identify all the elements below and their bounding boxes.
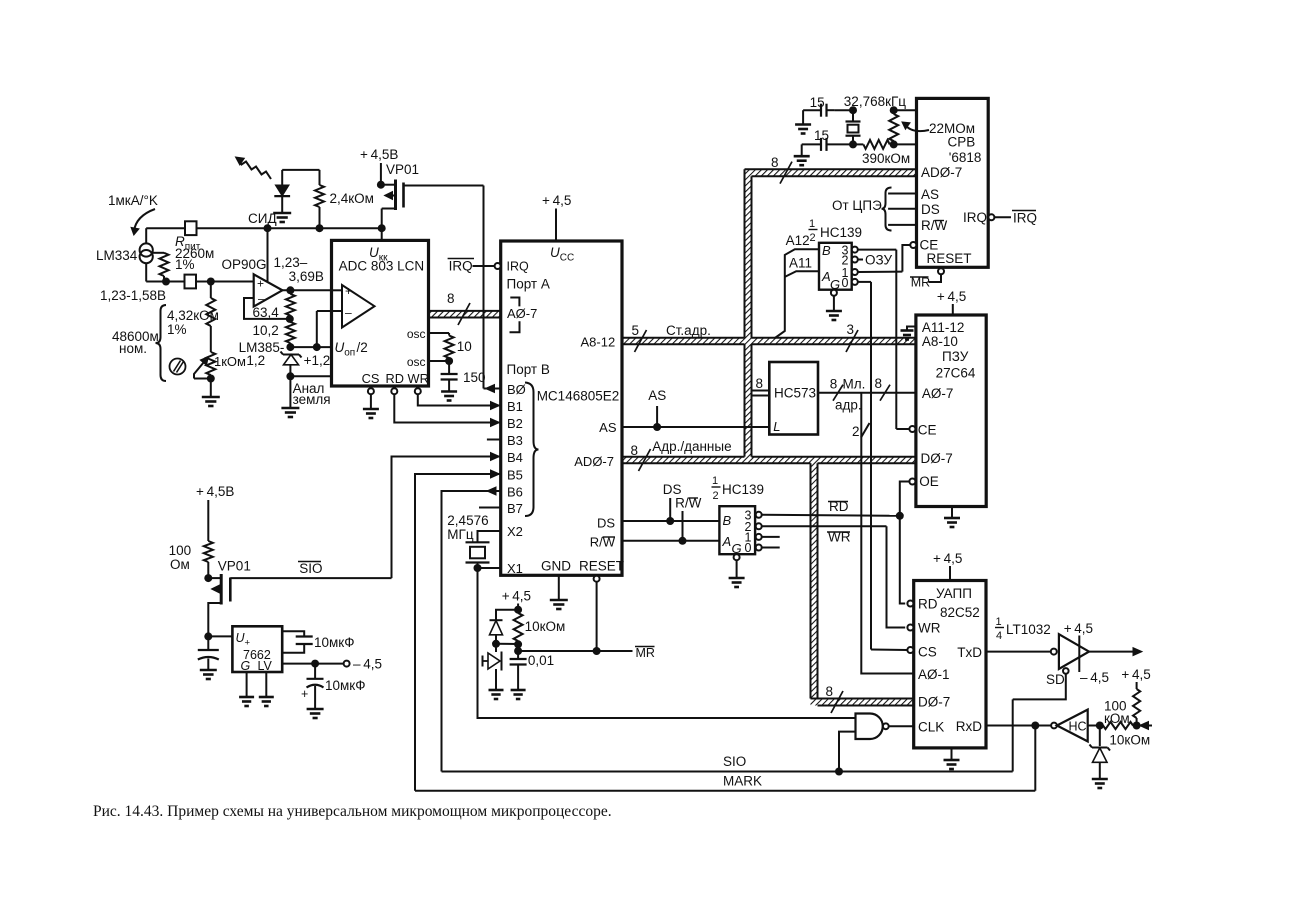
svg-text:+ 4,5В: + 4,5В [196,484,234,499]
svg-text:B2: B2 [507,416,523,431]
ground below HC139-1 G [826,311,842,320]
wire Мл.адр. A0-7 to ROM [818,376,916,413]
resistor 10кОм pullup [1109,667,1150,748]
IC СРВ 6818 [917,98,989,267]
pin B5 [415,468,523,791]
svg-text:+ 4,5: + 4,5 [1121,667,1150,682]
pin B4 [392,450,523,578]
svg-text:A8-10: A8-10 [922,334,958,349]
node VP01 drain / 7662 input [204,632,232,640]
resistor 22МОм (vertical) [889,106,916,148]
svg-text:кОм: кОм [1104,711,1130,726]
wire ADC WR to B1 [418,394,501,409]
IC HC139 (вторая половина) [712,475,765,556]
resistor 10,2 [253,319,295,351]
resistor 4,32кОм 1% [167,282,219,338]
svg-text:B7: B7 [507,501,523,516]
pin RD of ADC [386,371,404,394]
svg-text:B5: B5 [507,468,523,483]
label Uоп/2 pin [335,340,368,359]
label IRQ net (СРВ) [1012,211,1037,226]
svg-text:ADC 803 LCN: ADC 803 LCN [339,259,425,274]
node +4,5 reset pullup [502,589,531,614]
svg-text:–: – [345,306,352,320]
svg-text:B: B [723,513,732,528]
ground below pushbutton [489,690,504,699]
svg-text:390кОм: 390кОм [862,151,910,166]
svg-text:1%: 1% [167,322,187,337]
svg-text:10кОм: 10кОм [1109,733,1150,748]
svg-text:0,01: 0,01 [528,653,554,668]
svg-text:Рис. 14.43. Пример схемы на ун: Рис. 14.43. Пример схемы на универсально… [93,803,612,820]
pin AS of СРВ [888,187,939,202]
svg-text:CE: CE [918,423,937,438]
svg-text:МГц: МГц [447,527,474,542]
pin CE of ROM [896,426,915,432]
pin WR of ADC [408,371,429,394]
svg-text:WR: WR [408,371,429,386]
capacitor at 7662 input [198,636,219,670]
wire RxD line [986,722,1051,730]
IC HC139 (первая половина) [809,218,863,292]
current source LM334 [96,228,166,281]
pin WR of УАПП [907,625,913,631]
svg-text:8: 8 [756,376,764,391]
svg-text:1%: 1% [175,257,195,272]
pin osc 1 [407,327,449,341]
svg-text:X2: X2 [507,524,523,539]
svg-text:0: 0 [745,541,752,555]
wire HC573 input from bus (8) [752,376,770,396]
svg-text:RESET: RESET [927,251,972,266]
wire SIO gate line [230,561,391,578]
svg-text:1: 1 [809,218,815,230]
ground at ROM A11-12 [901,327,916,340]
svg-text:B4: B4 [507,450,523,465]
ground (bottom cap) [794,144,810,165]
potentiometer 1кОм [194,326,246,383]
comparator inside ADC [332,284,375,328]
bus hatching [429,169,917,705]
svg-text:+: + [301,687,308,701]
pin B3 [487,433,523,448]
svg-text:SIO: SIO [299,561,322,576]
svg-text:CS: CS [918,645,937,660]
svg-text:0: 0 [842,276,849,290]
pin group Порт B [507,362,550,516]
svg-text:15: 15 [810,95,825,110]
node main switched rail [146,224,386,232]
svg-text:AS: AS [599,420,617,435]
ground (top cap) [795,110,811,133]
pin X1 [474,561,523,576]
NAND gate (clock) [856,714,914,740]
IC MC146805E2 [501,241,622,575]
ground below MCU GND [550,600,568,609]
svg-text:–: – [258,292,265,306]
svg-text:SD: SD [1046,672,1065,687]
wire MR line [518,647,632,655]
svg-text:L: L [773,419,780,434]
svg-text:8: 8 [447,291,455,306]
svg-text:RD: RD [918,597,938,612]
wire AS line [622,388,769,431]
wire MARK line [415,726,1035,791]
svg-text:22МОм: 22МОм [929,121,975,136]
svg-text:3,69В: 3,69В [289,269,324,284]
resistor (box) in series to op-amp [185,275,254,289]
pin GND of MCU [541,559,571,601]
svg-text:B1: B1 [507,399,523,414]
resistor LM334 set (zigzag) [153,253,169,282]
svg-text:MARK: MARK [723,774,762,789]
resistor 10кОм (reset) [514,613,566,648]
node +4,5 УАПП [933,551,962,581]
svg-text:2: 2 [852,424,860,439]
svg-text:150: 150 [463,370,486,385]
svg-text:10мкФ: 10мкФ [325,678,365,693]
wire SIO line [442,699,1013,775]
ground below capacitor 150 [441,380,457,401]
pin group Порт A / A0-7 [507,277,550,333]
ground below input cap [200,670,217,679]
ground pins of 7662 [239,672,274,706]
svg-text:УАПП: УАПП [936,586,972,601]
pin A8-12 [581,335,616,350]
svg-text:IRQ: IRQ [449,259,473,274]
label 22МОм with arrow [900,119,975,136]
svg-text:Мл.: Мл. [843,377,866,392]
pin output 2 HC139-2 WR [756,523,887,544]
wire X1 clock to NAND gate [478,568,856,718]
ground below ADC CS [363,394,379,418]
bus vertical to СРВ (8) [771,155,792,184]
svg-text:8: 8 [826,684,834,699]
svg-text:63,4: 63,4 [253,305,280,320]
wire zener bottom to ADC analog ground pin [290,375,331,377]
resistor 390кОм [853,140,910,166]
pin DS of СРВ [888,202,940,217]
pin output 3 HC139-2 RD [756,499,904,520]
label -4,5 (driver) [1080,670,1109,685]
ground below 0,01 [511,690,526,699]
wire op-amp V+ from rail [267,228,269,282]
svg-text:2,4кОм: 2,4кОм [330,191,374,206]
svg-text:+: + [345,284,352,298]
svg-text:ADØ-7: ADØ-7 [574,454,614,469]
pin CS of ADC [362,371,380,394]
node op-amp output 1,23-3,69В [274,255,332,294]
wire R/W line [622,496,719,545]
svg-text:LM334: LM334 [96,248,138,263]
svg-text:MC146805E2: MC146805E2 [537,389,620,404]
wire RxD external input arrow [1137,722,1152,730]
svg-text:WR: WR [918,621,941,636]
svg-text:100: 100 [169,543,192,558]
LED СИД with light arrow [233,154,290,226]
ground below zener [1092,779,1108,788]
label 1/4 LT1032 [995,616,1051,642]
svg-text:8: 8 [830,377,838,392]
svg-text:osc: osc [407,355,426,369]
svg-text:LV: LV [258,659,273,673]
svg-text:B: B [822,243,831,258]
pin X2 [478,524,523,542]
zener LM385-1,2 [239,340,331,380]
zener clamp (RxD) [1090,726,1111,780]
svg-text:10,2: 10,2 [253,323,279,338]
label 1мкА/°K with curved arrow [108,193,158,236]
svg-text:B6: B6 [507,485,523,500]
transistor VP01 #2 [204,559,251,637]
svg-text:Порт A: Порт A [507,277,550,292]
svg-text:IRQ: IRQ [963,210,987,225]
pin output 1 HC139-2 [756,534,780,540]
node inverter input [1088,722,1104,730]
pin G HC139-2 [734,554,740,578]
svg-text:СРВ: СРВ [948,135,976,150]
svg-text:Ст.адр.: Ст.адр. [666,323,711,338]
svg-text:5: 5 [632,323,640,338]
svg-text:AS: AS [648,388,666,403]
transistor VP01 (P-MOSFET power switch) [377,162,419,228]
svg-text:земля: земля [293,392,331,407]
svg-text:1: 1 [996,616,1002,628]
resistor 63,4 [253,290,295,323]
svg-text:IRQ: IRQ [1013,211,1037,226]
buffer LT1032 [986,621,1093,672]
pin output 2 HC139-1 ОЗУ [852,253,893,268]
svg-text:+ 4,5: + 4,5 [937,289,966,304]
pin output 0 HC139-2 [756,545,780,551]
svg-text:RxD: RxD [956,719,982,734]
svg-text:IRQ: IRQ [507,259,530,273]
label От ЦПЭ with brace [832,188,892,231]
ground below ROM [944,507,960,528]
ground below potentiometer [202,379,220,407]
svg-text:+ 4,5: + 4,5 [542,193,571,208]
label IRQ to MCU [448,259,494,274]
svg-text:3: 3 [847,322,855,337]
ground below HC139-2 G [729,578,745,587]
svg-text:B3: B3 [507,433,523,448]
pin output 0 HC139-1 to УАПП CS [852,279,871,650]
IC ПЗУ 27C64 [916,315,986,507]
svg-text:– 4,5: – 4,5 [1080,670,1109,685]
svg-text:DØ-7: DØ-7 [921,451,953,466]
bus Порт A AØ-7 (8) [447,291,470,325]
svg-text:82C52: 82C52 [940,605,980,620]
crystal 2,4576 МГц [447,513,489,568]
svg-text:8: 8 [771,155,779,170]
svg-text:– 4,5: – 4,5 [353,657,382,672]
svg-text:RESET: RESET [579,559,624,574]
svg-text:адр.: адр. [835,398,862,413]
wire TxD output arrow [1089,648,1142,656]
pin B6 [442,485,523,772]
label MR (СРВ) [910,276,930,290]
svg-text:X1: X1 [507,561,523,576]
node +4,5В supply (analog switch VP01 source) [360,147,398,185]
pin B7 [479,501,523,516]
svg-text:+ 4,5В: + 4,5В [360,147,398,162]
pin CE of СРВ [902,238,938,272]
svg-text:OP90G: OP90G [222,257,267,272]
svg-text:A11-12: A11-12 [922,320,965,335]
crystal 32,768кГц [844,94,907,148]
svg-text:CLK: CLK [918,720,944,735]
svg-text:AØ-7: AØ-7 [507,306,537,321]
svg-text:A8-12: A8-12 [581,335,616,350]
resistor 100 Ом [169,541,213,578]
pin RESET of СРВ [927,251,972,282]
svg-text:DS: DS [921,202,940,217]
node +4,5В (SIO switch) [196,484,234,541]
svg-text:1,23–: 1,23– [274,255,308,270]
svg-text:HC139: HC139 [820,225,862,240]
svg-text:1кОм: 1кОм [214,354,246,369]
pin osc 2 [407,355,449,369]
pin SD of driver [1046,668,1069,687]
svg-text:A12: A12 [786,233,810,248]
resistor R_пит 2260м 1% (box style) [175,221,214,272]
svg-text:4: 4 [996,630,1002,642]
svg-text:CS: CS [362,371,380,386]
wire reset node [496,644,522,655]
pin output 1 HC139-1 to СРВ CE [852,269,903,275]
screwdriver-adjust symbol [170,359,186,375]
wire A11 from bus [785,256,819,277]
svg-text:HC: HC [1069,720,1087,734]
capacitor 15 (top) [803,95,853,117]
svg-text:8: 8 [631,443,639,458]
svg-text:A: A [722,534,732,549]
capacitor 0,01 [510,651,555,690]
svg-text:SIO: SIO [723,754,746,769]
svg-text:AØ-7: AØ-7 [922,386,954,401]
svg-text:+ 4,5: + 4,5 [933,551,962,566]
svg-text:ОЗУ: ОЗУ [865,253,893,268]
ground below output cap [307,709,324,718]
ground Анал земля [281,376,330,417]
svg-text:G: G [241,659,251,673]
capacitor 150 [441,361,486,385]
pin R/W of MCU [590,535,616,550]
resistor 100кОм [1103,699,1141,730]
node +4,5 ROM [937,289,966,315]
IC ADC 803 LCN [332,240,429,386]
bus vertical to УАПП (8) [826,684,844,713]
wire DS line [622,482,719,525]
IC HC573 [769,362,818,435]
svg-text:+1,2: +1,2 [304,353,331,368]
svg-text:HC573: HC573 [774,386,816,401]
svg-text:1,2: 1,2 [246,353,265,368]
wire Uкк supply from rail [381,228,383,240]
node +4,5 MCU supply [542,193,574,264]
svg-text:AØ-1: AØ-1 [918,667,950,682]
wire A0-1 branch (2) [852,393,914,674]
wire WR to УАПП [887,526,906,627]
svg-text:Порт B: Порт B [507,362,550,377]
capacitor 15 (bottom) [802,128,853,151]
svg-text:Адр./данные: Адр./данные [652,439,731,454]
svg-text:+ 4,5: + 4,5 [1064,621,1093,636]
svg-text:'6818: '6818 [949,150,982,165]
pin R/W of СРВ [888,218,947,233]
pin output 3 HC139-1 to ROM CE [852,247,897,429]
svg-text:ном.: ном. [119,341,147,356]
capacitor 10мкФ (output) [301,664,365,709]
pin RD of УАПП [907,601,913,607]
pin B1 [507,399,523,414]
svg-text:HC139: HC139 [722,482,764,497]
svg-text:27C64: 27C64 [936,366,976,381]
pin -4,5 output of 7662 [282,657,382,672]
svg-text:СИД: СИД [248,211,277,226]
svg-text:ADØ-7: ADØ-7 [921,165,962,180]
pin CS of УАПП [871,647,913,653]
wire SD shutdown [1013,674,1066,700]
svg-text:1: 1 [712,475,718,487]
inverter HC [1051,710,1088,742]
wire RD to УАПП [900,516,905,604]
svg-text:10мкФ: 10мкФ [314,635,354,650]
wire ADC RD to B2 [394,394,500,426]
svg-text:1,23-1,58В: 1,23-1,58В [100,288,166,303]
svg-text:Ом: Ом [170,557,190,572]
wire A12 from bus [774,233,819,339]
svg-text:2: 2 [713,490,719,502]
svg-text:DØ-7: DØ-7 [918,695,950,710]
svg-text:От ЦПЭ: От ЦПЭ [832,198,882,213]
svg-text:10кОм: 10кОм [525,619,566,634]
pin AD0-7 [574,454,614,469]
node 1,23-1,58В [100,278,185,304]
svg-text:VP01: VP01 [218,559,251,574]
svg-text:osc: osc [407,327,426,341]
pin IRQ of СРВ [963,210,1011,225]
svg-text:2,4576: 2,4576 [447,513,488,528]
diode reset (to +4,5) [490,610,519,648]
wire LED anode to resistor top [282,170,319,185]
pin AS of MCU [599,420,617,435]
svg-text:GND: GND [541,559,571,574]
pin DS of MCU [597,516,615,531]
wire VP01 gate to B0 [404,186,484,389]
capacitor 10мкФ (pump) [282,631,354,652]
svg-text:DS: DS [597,516,615,531]
svg-text:8: 8 [875,376,883,391]
pin RESET of MCU [579,559,624,652]
bus Адр./данные AD0-7 (8) [631,439,732,471]
svg-text:ПЗУ: ПЗУ [942,349,969,364]
wire NAND input B from SIO [839,732,856,772]
pin B2 [507,416,523,431]
IC УАПП 82C52 [914,581,986,748]
svg-text:TxD: TxD [957,645,982,660]
svg-text:/2: /2 [357,340,368,355]
node Uоп/2 [290,311,331,351]
pin IRQ of MCU [495,259,529,273]
wire op-amp feedback [244,298,290,319]
svg-text:4,32кОм: 4,32кОм [167,308,219,323]
svg-text:OE: OE [919,474,939,489]
svg-text:+: + [257,277,264,291]
pin B0 [484,382,526,397]
pin OE of ROM [900,479,916,516]
resistor 10 (osc) [445,333,472,365]
